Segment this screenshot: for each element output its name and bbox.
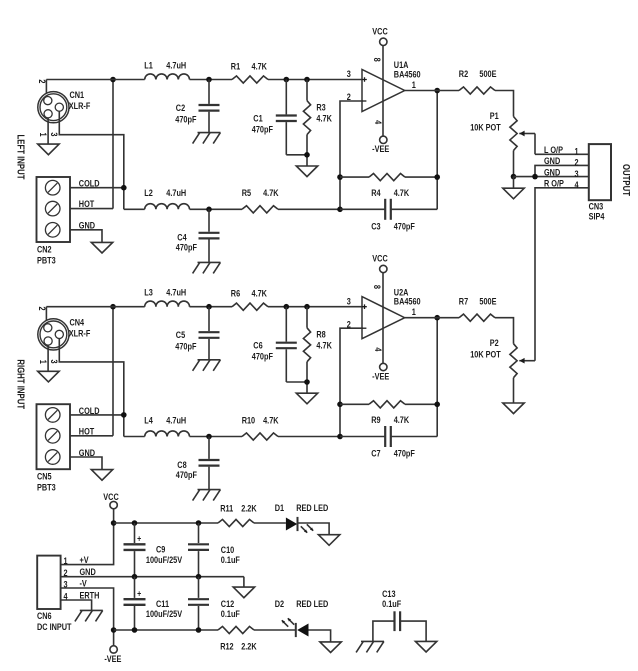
svg-text:GND: GND: [544, 155, 560, 166]
wire R11 to D1: [254, 522, 286, 524]
chassis ground below C4: [193, 262, 221, 273]
svg-text:470pF: 470pF: [394, 220, 415, 231]
value 470pF: [394, 448, 415, 459]
label L O/P: [544, 144, 563, 155]
junction C11 bottom: [132, 627, 138, 633]
junction output node: [434, 315, 440, 321]
junction C12 bottom: [196, 627, 202, 633]
junction cold node: [121, 185, 127, 191]
wire R O/P row: [535, 188, 589, 361]
capacitor C2: [199, 80, 220, 133]
label D1: [275, 502, 285, 513]
svg-text:3: 3: [347, 295, 351, 306]
wire C13 left: [373, 621, 395, 641]
chassis ground below C8: [193, 490, 221, 501]
svg-text:CN2: CN2: [37, 243, 52, 254]
label R7: [459, 295, 469, 306]
capacitor C6: [276, 307, 297, 382]
ground below P1: [503, 188, 524, 199]
svg-text:COLD: COLD: [79, 405, 100, 416]
svg-text:BA4560: BA4560: [394, 68, 421, 79]
ground of GND rail: [233, 587, 254, 598]
label U2A: [394, 286, 409, 297]
value 470pF: [394, 220, 415, 231]
value 4.7uH: [166, 287, 186, 298]
label OUTPUT: [621, 164, 632, 196]
label XLR-F: [69, 100, 91, 111]
svg-text:500E: 500E: [479, 68, 496, 79]
LED D1: [286, 517, 313, 533]
wire output to feedback: [436, 91, 438, 210]
svg-text:PBT3: PBT3: [37, 254, 56, 265]
svg-text:1: 1: [38, 360, 49, 364]
svg-text:RED LED: RED LED: [296, 502, 328, 513]
junction P1 bottom: [511, 174, 517, 180]
svg-text:2: 2: [574, 157, 578, 168]
pin number 2: [347, 91, 351, 102]
label -VEE: [372, 143, 389, 154]
svg-text:470pF: 470pF: [252, 123, 273, 134]
label C8: [177, 459, 187, 470]
svg-text:4.7K: 4.7K: [252, 288, 267, 299]
svg-text:8: 8: [372, 285, 383, 289]
value 4.7K: [394, 414, 409, 425]
value C11: [146, 608, 183, 619]
label C11: [156, 598, 169, 609]
pin number 1 of CN1: [38, 133, 49, 137]
ground below CN1: [38, 144, 59, 155]
value 4.7K: [263, 187, 278, 198]
junction R3 tap: [304, 77, 310, 83]
label L1: [144, 59, 153, 70]
label HOT: [79, 198, 95, 209]
label C7: [371, 448, 381, 459]
svg-text:0.1uF: 0.1uF: [382, 598, 401, 609]
svg-text:500E: 500E: [479, 295, 496, 306]
wire XLR pin3 to cold node: [59, 339, 124, 437]
label CN3: [589, 201, 604, 212]
svg-text:DC INPUT: DC INPUT: [37, 621, 72, 632]
junction C2 tap: [206, 77, 212, 83]
-VEE terminal: [380, 136, 387, 143]
label RED LED D1: [296, 502, 328, 513]
junction VCC rail: [111, 520, 117, 526]
label 10K POT: [470, 349, 501, 360]
label GND terminal: [79, 220, 95, 231]
label R8: [316, 329, 326, 340]
plus sign C11: [137, 589, 141, 599]
svg-text:4.7K: 4.7K: [394, 414, 409, 425]
wire rail L to R: [190, 79, 233, 81]
svg-text:OUTPUT: OUTPUT: [621, 164, 632, 196]
svg-text:2: 2: [63, 567, 67, 578]
wire C1 bottom to R3 bottom: [286, 154, 307, 156]
svg-text:GND: GND: [80, 566, 96, 577]
label R11: [220, 502, 233, 513]
label C2: [176, 102, 186, 113]
wire pin2 to feedback: [340, 328, 362, 436]
svg-text:R5: R5: [242, 187, 252, 198]
chassis ground below C5: [193, 360, 221, 371]
svg-text:4: 4: [574, 179, 578, 190]
value 4.7K: [316, 340, 331, 351]
wire to potentiometer: [495, 318, 514, 344]
label VCC power: [103, 491, 118, 502]
label R O/P: [544, 178, 564, 189]
label DC INPUT: [37, 621, 72, 632]
wire P1 to ground: [513, 177, 515, 189]
capacitor C8: [199, 437, 220, 490]
junction C4 tap: [206, 434, 212, 440]
wire HOT: [70, 435, 113, 437]
label GND row2: [544, 155, 560, 166]
svg-text:CN4: CN4: [70, 316, 85, 327]
wire output to feedback: [436, 318, 438, 437]
wire COLD: [70, 187, 124, 189]
label HOT: [79, 425, 95, 436]
wire pin2 to feedback: [340, 101, 362, 209]
value 470pF: [176, 242, 197, 253]
svg-text:BA4560: BA4560: [394, 296, 421, 307]
resistor R3: [303, 80, 310, 167]
op-amp U1A: [362, 69, 405, 111]
svg-text:R11: R11: [220, 502, 233, 513]
svg-text:R O/P: R O/P: [544, 178, 564, 189]
value 500E: [479, 295, 496, 306]
label CN1: [70, 89, 85, 100]
svg-text:C5: C5: [176, 329, 186, 340]
label RIGHT INPUT: [15, 359, 26, 409]
svg-text:C3: C3: [371, 220, 381, 231]
wire R12 to D2: [254, 629, 296, 631]
svg-text:470pF: 470pF: [176, 242, 197, 253]
wire rail to op-amp: [268, 79, 362, 81]
label L4: [144, 414, 153, 425]
pin number 3: [347, 68, 351, 79]
value 470pF: [175, 341, 196, 352]
svg-text:100uF/25V: 100uF/25V: [146, 554, 183, 565]
svg-text:470pF: 470pF: [252, 351, 273, 362]
label PBT3: [37, 254, 56, 265]
capacitor C12: [188, 577, 209, 630]
ground below R3: [296, 166, 317, 177]
svg-text:CN5: CN5: [37, 471, 52, 482]
svg-text:1: 1: [38, 133, 49, 137]
resistor R7: [459, 314, 495, 321]
inductor L2: [145, 204, 190, 210]
connector CN6: [37, 556, 60, 609]
svg-text:C7: C7: [371, 448, 381, 459]
LED D2: [282, 618, 309, 637]
svg-text:100uF/25V: 100uF/25V: [146, 608, 183, 619]
svg-text:COLD: COLD: [79, 178, 100, 189]
label LEFT INPUT: [15, 135, 26, 180]
ground after D1: [318, 535, 339, 546]
pin number 3 of CN1: [49, 132, 60, 136]
capacitor C9: [124, 523, 146, 577]
wire D1 to ground: [298, 523, 330, 535]
svg-text:470pF: 470pF: [176, 469, 197, 480]
junction R4 right: [434, 174, 440, 180]
svg-text:GND: GND: [79, 220, 95, 231]
capacitor C4: [199, 209, 220, 262]
junction hot on top rail: [110, 77, 116, 83]
svg-text:3: 3: [49, 360, 60, 364]
wire op-amp output: [405, 317, 459, 319]
pin number 1: [412, 306, 416, 317]
label SIP4: [589, 210, 605, 221]
capacitor C5: [199, 307, 220, 360]
wire GND rail drop: [243, 577, 245, 587]
svg-text:2: 2: [37, 307, 48, 311]
svg-text:4.7K: 4.7K: [263, 414, 278, 425]
wire rail L2 to R5: [190, 436, 243, 438]
wiper of P2: [519, 358, 535, 364]
value 470pF: [252, 351, 273, 362]
svg-text:RED LED: RED LED: [296, 598, 328, 609]
label ERTH: [80, 589, 100, 600]
connector CN3: [589, 144, 611, 200]
svg-text:-V: -V: [80, 577, 88, 588]
ground below CN4: [38, 371, 59, 382]
pin number 2 of CN3: [574, 157, 578, 168]
value 470pF: [252, 123, 273, 134]
wire L O/P row: [535, 153, 589, 155]
svg-text:4.7K: 4.7K: [263, 187, 278, 198]
pin number 1 of CN3: [574, 146, 578, 157]
wire hot rail vertical: [112, 307, 114, 436]
junction C2 tap: [206, 304, 212, 310]
wire rail L to R: [190, 306, 233, 308]
wire XLR pin3 to cold node: [59, 111, 124, 209]
svg-text:RIGHT INPUT: RIGHT INPUT: [15, 359, 26, 409]
ground below P2: [503, 403, 524, 414]
svg-text:L3: L3: [144, 287, 153, 298]
junction R9 right: [434, 402, 440, 408]
label L2: [144, 187, 153, 198]
svg-text:HOT: HOT: [79, 425, 95, 436]
label +V: [80, 554, 89, 565]
value 470pF: [176, 469, 197, 480]
label GND power: [80, 566, 96, 577]
value 4.7K: [394, 187, 409, 198]
label P2: [490, 337, 499, 348]
svg-text:XLR-F: XLR-F: [69, 327, 91, 338]
value 4.7K: [263, 414, 278, 425]
pin number 3 of CN4: [49, 360, 60, 364]
svg-text:R7: R7: [459, 295, 469, 306]
svg-text:D1: D1: [275, 502, 285, 513]
svg-text:3: 3: [574, 168, 578, 179]
wire GND rail: [61, 576, 244, 578]
svg-text:3: 3: [63, 578, 67, 589]
value 2.2K R12: [241, 640, 256, 651]
label -V: [80, 577, 88, 588]
pin number 3: [347, 295, 351, 306]
svg-text:3: 3: [347, 68, 351, 79]
svg-text:C6: C6: [253, 340, 263, 351]
label C10: [221, 544, 235, 555]
svg-text:-VEE: -VEE: [372, 143, 389, 154]
wire op-amp output: [405, 90, 459, 92]
junction R9 left: [337, 402, 343, 408]
-VEE terminal power: [110, 646, 117, 653]
svg-text:R4: R4: [371, 187, 381, 198]
value 4.7uH: [166, 414, 186, 425]
op-amp U2A: [362, 297, 405, 339]
junction R8 tap: [304, 304, 310, 310]
label BA4560: [394, 296, 421, 307]
label R1: [231, 61, 241, 72]
VCC terminal: [380, 38, 387, 45]
ground below R3: [296, 393, 317, 404]
pin number 3 of CN3: [574, 168, 578, 179]
junction C1-R3 ground node: [304, 152, 310, 158]
wire XLR pin2 to filter rail: [45, 307, 47, 325]
svg-text:HOT: HOT: [79, 198, 95, 209]
capacitor C7: [340, 426, 437, 447]
junction C1 tap: [284, 304, 290, 310]
inductor L4: [145, 431, 190, 437]
label C4: [177, 232, 187, 243]
svg-text:R12: R12: [220, 640, 234, 651]
svg-text:C2: C2: [176, 102, 186, 113]
svg-text:470pF: 470pF: [175, 341, 196, 352]
label 10K POT: [470, 122, 501, 133]
wire VCC to +V pin: [61, 509, 114, 565]
label VCC: [372, 25, 387, 36]
wire COLD: [70, 414, 124, 416]
svg-text:4.7uH: 4.7uH: [166, 414, 186, 425]
label C3: [371, 220, 381, 231]
label R10: [242, 414, 256, 425]
svg-text:4.7K: 4.7K: [252, 61, 267, 72]
svg-text:1: 1: [412, 79, 416, 90]
ground below terminal block: [91, 470, 112, 481]
junction -VEE rail: [111, 627, 117, 633]
label COLD: [79, 178, 100, 189]
value 4.7K: [252, 61, 267, 72]
ground below terminal block: [91, 242, 112, 253]
svg-text:2.2K: 2.2K: [241, 502, 256, 513]
VCC terminal: [380, 265, 387, 272]
inductor L3: [145, 301, 190, 307]
wire rail L2 to R5: [190, 208, 243, 210]
svg-text:0.1uF: 0.1uF: [221, 608, 240, 619]
svg-text:2: 2: [37, 79, 48, 83]
pin number 8: [372, 285, 383, 289]
wire GND row2: [535, 165, 589, 176]
svg-text:2.2K: 2.2K: [241, 640, 256, 651]
svg-text:4.7K: 4.7K: [394, 187, 409, 198]
label R12: [220, 640, 234, 651]
resistor R1: [232, 76, 268, 83]
wire top rail: [46, 79, 144, 81]
label P1: [490, 110, 499, 121]
value C9: [146, 554, 183, 565]
pin number 2 of CN1: [37, 79, 48, 83]
svg-text:LEFT INPUT: LEFT INPUT: [15, 135, 26, 180]
svg-text:4.7uH: 4.7uH: [166, 59, 186, 70]
pin number 4: [373, 347, 384, 351]
svg-text:1: 1: [574, 146, 578, 157]
wire -V pin to -VEE rail: [61, 588, 114, 646]
pin number 3 of CN6: [63, 578, 67, 589]
svg-text:10K POT: 10K POT: [470, 349, 501, 360]
svg-text:SIP4: SIP4: [589, 210, 605, 221]
label R5: [242, 187, 252, 198]
svg-text:4.7K: 4.7K: [316, 112, 331, 123]
label GND row3: [544, 166, 560, 177]
svg-text:-VEE: -VEE: [104, 653, 121, 664]
resistor R2: [459, 87, 495, 94]
ground after D2: [320, 642, 341, 653]
svg-text:C9: C9: [156, 543, 166, 554]
label U1A: [394, 59, 409, 70]
junction C1 tap: [284, 77, 290, 83]
pin number 2 of CN6: [63, 567, 67, 578]
svg-text:GND: GND: [79, 447, 95, 458]
wire rail to op-amp: [268, 306, 362, 308]
wire XLR pin2 to filter rail: [45, 80, 47, 98]
resistor R10: [242, 433, 278, 440]
terminal block CN2: [37, 177, 71, 242]
value 4.7K: [252, 288, 267, 299]
svg-text:+: +: [137, 589, 141, 599]
wiper of P1: [519, 131, 535, 137]
wire to potentiometer: [495, 91, 514, 117]
wire R5 to feedback node: [278, 208, 340, 210]
wire D2 to ground: [309, 630, 331, 642]
label C13: [382, 588, 396, 599]
value 470pF: [175, 113, 196, 124]
junction hot on top rail: [110, 304, 116, 310]
svg-text:CN6: CN6: [37, 610, 52, 621]
label R2: [459, 68, 469, 79]
wire VCC rail: [114, 522, 218, 524]
XLR connector CN4: [38, 319, 69, 350]
svg-text:4.7uH: 4.7uH: [166, 187, 186, 198]
svg-text:R8: R8: [316, 329, 326, 340]
inductor L1: [145, 74, 190, 80]
resistor R5: [242, 206, 278, 213]
capacitor C3: [340, 199, 437, 220]
capacitor C1: [276, 80, 297, 155]
label R4: [371, 187, 381, 198]
wire XLR pin1 to ground: [47, 118, 49, 144]
svg-text:L O/P: L O/P: [544, 144, 563, 155]
svg-text:4.7K: 4.7K: [316, 340, 331, 351]
junction C4 tap: [206, 207, 212, 213]
chassis ground C13: [356, 641, 384, 652]
svg-text:C1: C1: [253, 112, 263, 123]
label C12: [221, 598, 235, 609]
pin number 2: [347, 318, 351, 329]
resistor R4: [340, 174, 437, 181]
wire wiper to L O/P: [534, 134, 536, 155]
svg-text:XLR-F: XLR-F: [69, 100, 91, 111]
svg-text:R2: R2: [459, 68, 469, 79]
label C6: [253, 340, 263, 351]
value C10: [221, 554, 240, 565]
svg-text:-VEE: -VEE: [372, 370, 389, 381]
-VEE terminal: [380, 363, 387, 370]
svg-text:+: +: [137, 534, 141, 544]
value 4.7uH: [166, 59, 186, 70]
junction output node: [434, 88, 440, 94]
svg-text:4.7uH: 4.7uH: [166, 287, 186, 298]
label -VEE power: [104, 653, 121, 664]
